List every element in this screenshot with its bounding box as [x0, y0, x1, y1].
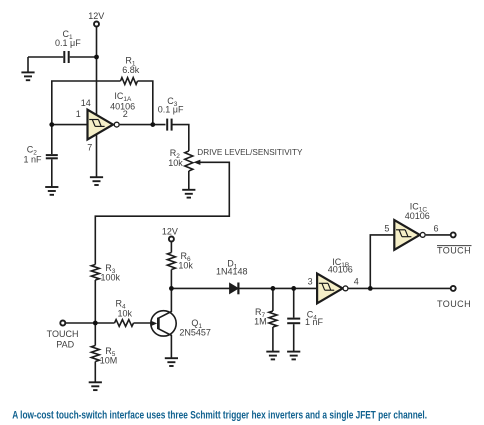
svg-text:6.8k: 6.8k	[122, 65, 140, 75]
svg-text:10k: 10k	[168, 158, 183, 168]
svg-text:10k: 10k	[178, 260, 193, 270]
svg-text:DRIVE LEVEL/SENSITIVITY: DRIVE LEVEL/SENSITIVITY	[197, 148, 303, 157]
svg-text:10k: 10k	[117, 309, 132, 319]
svg-text:14: 14	[81, 98, 91, 108]
svg-text:1 nF: 1 nF	[305, 317, 324, 327]
svg-text:10M: 10M	[100, 356, 118, 366]
svg-text:TOUCH: TOUCH	[437, 245, 471, 255]
svg-text:0.1 μF: 0.1 μF	[158, 105, 184, 115]
svg-text:100k: 100k	[101, 273, 121, 283]
svg-text:0.1 μF: 0.1 μF	[55, 38, 81, 48]
svg-text:1: 1	[76, 109, 81, 119]
svg-text:1M: 1M	[254, 317, 267, 327]
svg-text:3: 3	[308, 276, 313, 286]
svg-text:2N5457: 2N5457	[179, 328, 211, 338]
svg-text:4: 4	[354, 276, 359, 286]
svg-text:6: 6	[433, 224, 438, 234]
svg-text:5: 5	[384, 224, 389, 234]
svg-text:40106: 40106	[328, 265, 353, 275]
svg-text:1N4148: 1N4148	[216, 267, 248, 277]
svg-text:A low-cost touch-switch interf: A low-cost touch-switch interface uses t…	[12, 409, 427, 421]
svg-text:12V: 12V	[88, 11, 104, 21]
svg-text:TOUCH: TOUCH	[437, 299, 471, 309]
svg-text:PAD: PAD	[56, 340, 74, 350]
svg-text:12V: 12V	[162, 227, 178, 237]
svg-text:7: 7	[87, 143, 92, 153]
svg-text:1 nF: 1 nF	[24, 154, 43, 164]
svg-text:40106: 40106	[405, 211, 430, 221]
svg-text:2: 2	[123, 109, 128, 119]
svg-text:TOUCH: TOUCH	[47, 329, 79, 339]
